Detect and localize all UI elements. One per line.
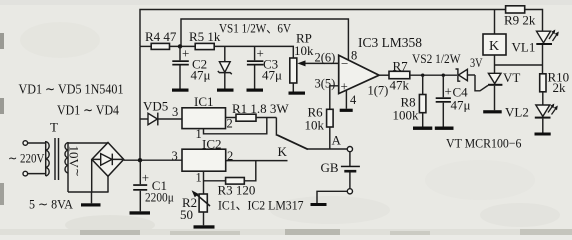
svg-text:VD1 ∼ VD4: VD1 ∼ VD4 [57,103,119,118]
wire op-amp output to R7 [379,74,389,76]
node main junction [138,158,142,162]
svg-text:K: K [278,144,288,159]
capacitor C2 [172,46,210,89]
capacitor C4 [436,75,471,126]
label ~220V [8,151,45,166]
wire R1 to switch [256,117,276,119]
label VL2 [505,105,529,120]
ground bridge [81,203,101,206]
node A terminal [347,147,352,152]
svg-text:+: + [142,170,149,185]
wire rail to VL1 [525,10,543,32]
svg-text:VT MCR100−6: VT MCR100−6 [446,136,522,151]
resistor R9 [504,6,536,28]
svg-text:8: 8 [351,49,357,63]
ground VS1 [217,89,234,92]
svg-text:R3 120: R3 120 [218,183,256,198]
ground C2 [172,89,189,92]
svg-text:R4 47: R4 47 [145,29,177,44]
svg-text:2: 2 [227,117,233,131]
svg-text:47μ: 47μ [451,98,471,113]
label VT MCR100-6 [446,136,522,151]
svg-text:3: 3 [172,105,178,119]
ground C1 [130,211,151,214]
svg-text:2k: 2k [553,80,567,95]
node junction R4/R5/C2 [178,44,182,48]
svg-text:10k: 10k [305,118,325,133]
svg-text:VL2: VL2 [505,105,529,120]
svg-text:GB: GB [321,160,339,175]
label ~ secondary rotated [71,168,82,177]
bridge rectifier VD1-VD4 [92,143,124,177]
relay K [483,34,506,55]
wire op-amp pin 4 to ground [345,90,347,109]
LED VL2 [535,104,558,133]
label IC1 pin3 [172,105,178,119]
wire secondary top to bridge [68,142,108,144]
label 10V rotated [67,146,82,169]
resistor R3 [218,178,256,198]
ground VL2 [535,133,551,136]
svg-text:R5 1k: R5 1k [189,29,221,44]
svg-text:10V: 10V [67,146,82,169]
label 3V [470,55,483,70]
wire RP wiper to op-amp inverting input [297,60,338,66]
svg-text:2(6): 2(6) [315,51,336,65]
wire R3 to IC2 pin1 [204,180,226,182]
svg-text:3(5): 3(5) [315,77,336,91]
svg-text:1(7): 1(7) [368,84,389,98]
svg-text:IC2: IC2 [202,137,222,152]
zener VS1 [218,46,232,88]
svg-text:3: 3 [172,149,178,163]
wire bus to ground [91,192,93,203]
svg-text:VL1: VL1 [512,40,536,55]
wire bridge output to IC2 [124,159,182,161]
capacitor C1 [133,160,167,211]
ground GB [311,203,327,206]
svg-text:VT: VT [503,70,520,85]
transformer T [23,120,68,193]
ground R2 [194,225,215,228]
svg-text:4: 4 [350,93,357,107]
wire R4 to node [170,45,196,47]
wire VT gate [475,75,488,91]
label T top texts VD [19,82,124,97]
svg-text:A: A [332,133,342,148]
svg-text:47μ: 47μ [262,68,282,83]
svg-text:+: + [445,84,452,99]
regulator IC1 [182,94,226,129]
diode VD5 [140,99,182,126]
battery GB [321,152,360,189]
label pin 2(6) [315,51,336,65]
resistor R5 [189,29,221,50]
svg-text:IC3 LM358: IC3 LM358 [358,36,422,51]
wire IC1 adj [204,118,267,134]
node C4 tap [442,74,445,77]
zener VS2 [456,69,476,81]
resistor R1 [232,101,289,121]
svg-text:IC1、IC2 LM317: IC1、IC2 LM317 [218,198,304,213]
svg-text:VD1 ∼ VD5 1N5401: VD1 ∼ VD5 1N5401 [19,82,124,97]
label pin 3(5) [315,77,336,91]
wire R6 to node A line [329,127,331,149]
wire main supply column [139,46,141,160]
wire GB to ground [317,191,347,203]
svg-text:∼: ∼ [71,168,82,177]
svg-text:VS1 1/2W、6V: VS1 1/2W、6V [219,22,291,36]
svg-text:1: 1 [196,127,202,141]
wire R5 to RP [214,46,293,58]
svg-text:2200μ: 2200μ [145,190,174,205]
label C1 value [145,190,174,205]
LED VL1 [536,30,559,74]
svg-text:47k: 47k [390,78,410,93]
svg-text:T: T [50,120,58,135]
wire R7 to VS2 [410,74,457,76]
label 5~8VA [29,197,74,212]
label IC2 pin3 [172,149,178,163]
svg-text:5 ∼ 8VA: 5 ∼ 8VA [29,197,74,212]
resistor R10 [540,70,569,106]
label VS2 [412,51,461,66]
wire VL1 cathode to K/VT [495,64,543,66]
wire secondary bottom bus [68,191,109,193]
svg-text:IC1: IC1 [194,94,214,109]
svg-text:+: + [182,46,189,61]
wire node A line [308,148,348,150]
wire rail to relay K [494,10,496,35]
label IC2 pin2 [227,149,233,163]
ground R8 [413,127,432,130]
svg-text:VD5: VD5 [143,99,168,114]
svg-text:−: − [341,56,348,71]
label IC2 pin1 [196,171,202,185]
resistor R8 [393,75,426,126]
rheostat R2 [180,190,210,225]
label VL1 [512,40,536,55]
label IC1 IC2 LM317 [218,198,304,213]
ground C3 [247,89,264,92]
wire inner top rail to pin 8 [181,19,348,60]
svg-text:3V: 3V [470,55,483,70]
svg-text:K: K [489,39,499,54]
wire op-amp + input [330,86,339,110]
ground RP [289,92,306,95]
svg-text:R9 2k: R9 2k [504,13,536,28]
wire K coil to VT anode [494,55,496,73]
potentiometer RP [290,31,314,92]
resistor R6 [305,105,334,133]
wire bridge left leg [91,160,93,193]
label IC3 LM358 [358,36,422,51]
switch K blade [276,118,307,160]
svg-text:10k: 10k [294,43,314,58]
label A [332,133,342,148]
wire IC2 pin1 down [203,171,205,194]
wire bridge bottom leg [107,176,109,192]
ground pin4 [340,109,353,112]
thyristor VT [488,70,520,110]
wire R4 feed [140,45,151,47]
svg-text:50: 50 [180,207,193,222]
wire outer top rail [140,10,506,47]
op-amp U1 IC3 [339,55,379,93]
label pin 4 [350,93,357,107]
wire IC2 out [226,160,288,162]
svg-text:R1 1.8 3W: R1 1.8 3W [232,101,289,116]
wire IC2 out branch to R3 [244,161,256,181]
svg-text:47μ: 47μ [191,68,211,83]
svg-text:∼ 220V: ∼ 220V [8,151,45,166]
label pin 8 [351,49,357,63]
node R8 tap [421,74,424,77]
regulator IC2 [182,137,226,172]
svg-text:100k: 100k [393,108,420,123]
svg-text:1: 1 [196,171,202,185]
label IC1 pin1 [196,127,202,141]
label VS1 [219,22,291,36]
svg-text:R7: R7 [393,59,409,74]
resistor R4 [145,29,177,49]
ground VT [483,110,502,113]
label IC1 pin2 [227,117,233,131]
capacitor C3 [247,46,282,89]
label VD1-VD4 [57,103,119,118]
wire IC1 out to R1 [226,117,237,119]
svg-text:VS2 1/2W: VS2 1/2W [412,51,461,66]
resistor R7 [389,59,410,93]
label pin 1(7) [368,84,389,98]
node GB bottom terminal [347,189,352,194]
ground C4 [435,127,454,130]
